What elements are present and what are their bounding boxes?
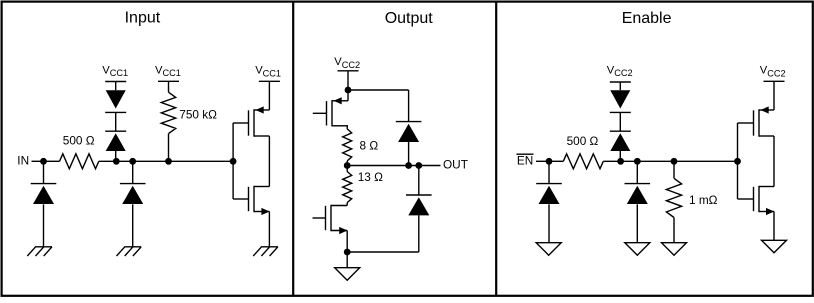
node M (clamp stack junction, enable): [617, 158, 624, 165]
panel divider right: [495, 2, 497, 296]
ground (triangle, under D10): [625, 243, 650, 256]
wire node A to resistor: [44, 160, 60, 162]
svg-text:VCC1: VCC1: [155, 64, 181, 78]
node P (pulldown junction): [671, 158, 678, 165]
wire rail corner down to diode D5: [408, 90, 410, 122]
diode D1 (ESD, IN to ground): [31, 183, 57, 185]
ground (triangle, under pulldown): [662, 243, 687, 256]
svg-text:750 kΩ: 750 kΩ: [179, 107, 217, 121]
wire node L to diode D7: [548, 161, 550, 183]
wire gate node E to Q2 gate: [232, 161, 234, 199]
wire VCC1 to diode D3: [115, 82, 117, 91]
node L (EN junction): [546, 158, 553, 165]
node E (gate junction): [230, 158, 237, 165]
transistor Q4 NMOS (output low-side): [330, 205, 332, 231]
wire NMOS source to ground (enable): [773, 212, 775, 241]
node F (VCC2 rail junction): [345, 87, 352, 94]
wire node L to resistor: [549, 160, 563, 162]
svg-text:VCC1: VCC1: [102, 64, 128, 78]
transistor Q5 PMOS (enable inverter): [758, 109, 760, 136]
wire node N to diode D10: [636, 161, 638, 183]
diode D7 (ESD, EN to ground): [536, 183, 562, 185]
resistor 8 Ohm: [343, 129, 352, 161]
wire node C to diode D4: [132, 161, 134, 183]
svg-text:OUT: OUT: [443, 157, 468, 171]
wire NMOS source to ground: [268, 212, 270, 247]
diode D9 (top clamp, enable): [610, 90, 630, 108]
node B (clamp stack junction): [113, 158, 120, 165]
svg-text:IN: IN: [17, 153, 29, 167]
svg-text:13 Ω: 13 Ω: [358, 170, 383, 184]
node J (OUT junction left): [405, 162, 412, 169]
svg-text:Input: Input: [125, 10, 161, 27]
wire D2 anode to node B: [115, 151, 117, 161]
transistor Q2 NMOS (input inverter): [253, 186, 255, 212]
wire resistor to node B: [99, 160, 117, 162]
wire resistor to node M: [603, 160, 620, 162]
wire node N to node P: [637, 160, 674, 162]
wire resistor 8 Ohm to node G: [346, 161, 348, 166]
power VCC2 terminal bar (output): [338, 70, 359, 72]
wire D4 anode to ground: [132, 204, 134, 247]
resistor 500 Ohm (enable): [563, 154, 603, 169]
wire node F to diode D5 branch: [348, 89, 409, 91]
transistor Q3 PMOS (output high-side): [331, 100, 333, 126]
wire VCC2 to diode D9: [619, 82, 621, 90]
svg-text:VCC2: VCC2: [334, 56, 360, 70]
power VCC2 terminal bar (enable inverter): [764, 80, 785, 82]
ground (triangle, under D7): [536, 243, 561, 256]
wire node M to node N: [621, 160, 638, 162]
node Q (gate junction, enable): [734, 158, 741, 165]
wire gate node Q to Q6 gate: [737, 161, 739, 199]
diode D4 (ESD, node C to ground): [120, 183, 146, 185]
svg-text:EN: EN: [517, 153, 533, 167]
wire node P to gate node Q: [674, 160, 738, 162]
wire PMOS drain to NMOS drain (enable): [773, 136, 775, 187]
power VCC2 terminal bar (enable clamp stack): [610, 81, 631, 83]
ground (hatched, under inverter): [261, 246, 278, 248]
ground (triangle, output): [335, 268, 360, 281]
wire VCC1 to PMOS source: [268, 81, 270, 110]
wire VCC1 to resistor 750k: [168, 81, 170, 92]
power VCC1 terminal bar (clamp stack): [105, 81, 126, 83]
diode D6 (low-side clamp, cathode to OUT): [406, 194, 432, 196]
ground (hatched, under D4): [124, 246, 141, 248]
wire IN to node A: [32, 160, 44, 162]
resistor 1 mOhm pulldown: [666, 178, 681, 217]
node N (lower diode junction, enable): [634, 158, 641, 165]
node D (pullup junction): [165, 158, 172, 165]
svg-text:VCC2: VCC2: [607, 64, 633, 78]
wire resistor 750k to node D: [168, 134, 170, 162]
wire node J to node K to OUT: [409, 165, 441, 167]
transistor Q6 NMOS (enable inverter): [758, 186, 760, 212]
wire D8 anode to node M: [619, 151, 621, 161]
wire PMOS drain to resistor 8 Ohm: [346, 126, 348, 129]
diode D8 (bottom clamp, enable): [610, 130, 631, 132]
wire node P to resistor 1 mOhm: [673, 161, 675, 178]
wire EN to node L: [536, 160, 549, 162]
EN overline: [517, 153, 534, 155]
diode D3 (top clamp, anode at VCC1): [106, 90, 126, 108]
ground (triangle, under enable inverter): [762, 240, 787, 253]
wire node K to diode D6: [418, 166, 420, 196]
power VCC1 terminal bar (inverter): [259, 80, 280, 82]
wire node G to node J: [347, 165, 408, 167]
svg-text:VCC1: VCC1: [255, 64, 281, 78]
svg-text:Output: Output: [385, 10, 434, 27]
wire node D to gate node E: [169, 160, 234, 162]
wire NMOS source to node H: [346, 231, 348, 253]
svg-text:8 Ω: 8 Ω: [360, 139, 379, 153]
wire D7 anode to ground: [548, 204, 550, 242]
ground (hatched, under D1): [35, 246, 52, 248]
wire D5 anode to node J: [408, 142, 410, 166]
wire node G to resistor 13 Ohm: [346, 166, 348, 172]
resistor 750 kOhm pullup: [161, 92, 175, 133]
wire PMOS drain to NMOS drain: [268, 136, 270, 187]
wire node B to node C: [116, 160, 132, 162]
wire gate node E to Q1 gate: [232, 123, 234, 161]
wire node C to node D: [133, 160, 169, 162]
diode D10 (ESD, node N to ground): [625, 183, 651, 185]
diode D2 (bottom clamp, cathode up): [105, 130, 126, 132]
svg-text:500 Ω: 500 Ω: [63, 134, 95, 148]
svg-text:VCC2: VCC2: [760, 65, 786, 79]
wire resistor 13 Ohm to NMOS drain: [346, 203, 348, 206]
wire node F to PMOS source: [347, 90, 349, 101]
node G (output mid junction): [344, 162, 351, 169]
wire D1 anode to ground: [43, 204, 45, 247]
wire D3 cathode to D2 cathode: [115, 112, 117, 131]
resistor 500 Ohm (input): [60, 154, 99, 169]
wire node H to ground: [346, 252, 348, 268]
wire VCC2 to PMOS source (enable): [773, 81, 775, 110]
svg-text:1 mΩ: 1 mΩ: [689, 193, 718, 207]
wire D10 anode to ground: [636, 204, 638, 242]
wire bottom rail to node H: [347, 251, 419, 253]
wire D6 anode to bottom rail: [418, 215, 420, 252]
power VCC1 terminal bar (pullup): [158, 80, 179, 82]
wire D9 cathode to D8 cathode: [619, 112, 621, 131]
wire VCC2 to node F: [347, 71, 349, 90]
node K (OUT junction right): [415, 162, 422, 169]
transistor Q1 PMOS (input inverter): [253, 109, 255, 136]
wire resistor 1 mOhm to ground: [673, 218, 675, 243]
svg-text:Enable: Enable: [622, 10, 672, 27]
node C (lower diode junction): [129, 158, 136, 165]
wire gate node Q to Q5 gate: [737, 123, 739, 161]
resistor 13 Ohm: [343, 172, 352, 203]
node A (IN junction): [40, 158, 47, 165]
wire node A to diode D1: [43, 161, 45, 183]
panel divider left: [292, 2, 294, 296]
diode D5 (OUT to VCC2 clamp): [396, 121, 422, 123]
node H (low-side source junction): [344, 249, 351, 256]
svg-text:500 Ω: 500 Ω: [567, 134, 599, 148]
